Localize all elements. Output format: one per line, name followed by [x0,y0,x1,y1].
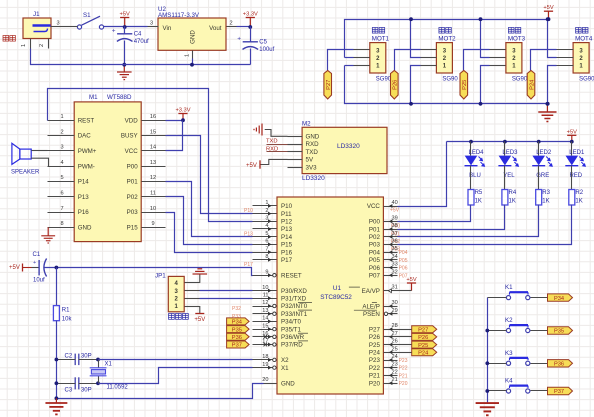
pin 12 of U1 P32/INT0 [253,300,313,310]
wire M1 P01 to U1 P14 [166,182,253,237]
node ground rail bottom junction [55,396,59,400]
svg-text:MOT1: MOT1 [372,36,390,43]
wire crystal to U1 X2 [99,359,253,361]
wire MOT2 pin1 to ground bus [411,66,421,104]
pin 35 of U1 P04 [369,246,398,256]
node MOT3 ground junction [479,102,483,106]
port P25 flag [412,341,437,349]
svg-text:TXD: TXD [306,149,319,156]
wire R1 to ground rail [56,321,58,399]
svg-text:P30/RXD: P30/RXD [281,288,307,295]
svg-text:P34/T0: P34/T0 [281,319,302,326]
svg-text:P01: P01 [127,179,139,186]
port P24 flag [412,349,437,357]
pin 11 of M1 [142,191,166,197]
svg-text:M1: M1 [89,94,98,101]
svg-text:R1: R1 [62,308,70,314]
svg-text:3: 3 [265,216,268,222]
svg-text:+: + [33,260,36,266]
wire M1 VDD to +3.3V [166,120,183,122]
wire JP1 pin1 to +5V [199,306,201,314]
wire P26 pin to flag [398,336,412,338]
node LED bus junction LED4 [469,140,473,144]
servo connector MOT4 [573,28,594,83]
pin 33 of U1 P06 [369,262,398,272]
svg-text:J1: J1 [33,11,40,18]
pin 14 of U1 P34/T0 [253,316,302,326]
svg-text:11: 11 [263,293,269,299]
svg-text:1K: 1K [509,199,516,205]
svg-text:P10: P10 [281,203,293,210]
wire K2 left [488,330,507,332]
svg-text:REST: REST [78,117,95,124]
pin 11 of U1 P31/TXD [253,293,307,303]
servo connector MOT3 [506,28,528,83]
pin 1 of J1 [21,39,31,49]
svg-text:P24: P24 [418,351,428,357]
pin 39 of U1 P00 [369,215,398,225]
svg-text:P13: P13 [281,226,293,233]
LED LED4 [465,142,485,180]
svg-text:LED2: LED2 [536,150,552,156]
label TXD [266,139,278,145]
svg-text:P05: P05 [399,258,408,264]
label P13 [244,231,253,237]
svg-text:LD3320: LD3320 [302,175,325,182]
crystal X1 11.0592 [90,358,129,391]
svg-text:P13: P13 [78,194,90,201]
svg-text:5V: 5V [306,157,314,164]
pin 1 of MOT4 [557,65,574,67]
ground at C4 [117,65,132,80]
svg-text:P36: P36 [232,335,242,341]
port P37 flag at U1 [227,341,250,349]
svg-text:P05: P05 [369,257,381,264]
svg-text:+: + [237,36,241,43]
svg-text:ALE/P: ALE/P [362,303,380,310]
svg-text:P33/INT1: P33/INT1 [281,311,308,318]
wire ground rail bottom [57,384,264,399]
svg-text:P37: P37 [554,389,564,395]
svg-text:36: 36 [392,239,398,245]
pin 2 of MOT3 [490,57,506,59]
svg-text:STC89C52: STC89C52 [320,294,352,301]
pin 15 of M1 [142,129,166,135]
svg-text:SG90: SG90 [512,77,528,83]
svg-text:RXD: RXD [306,141,320,148]
pin 1 of U2 [185,51,193,59]
svg-text:+5V: +5V [246,163,257,169]
svg-text:P22: P22 [399,366,408,372]
svg-text:P11: P11 [281,211,292,218]
pin 27 of U1 P26 [369,331,398,341]
power +5V at JP1 [194,314,205,324]
svg-text:+5V: +5V [9,265,20,271]
svg-text:2: 2 [39,44,45,47]
svg-text:P24: P24 [529,80,535,90]
ground servo bus [538,104,556,122]
pin 3 of J1 [51,21,63,27]
wire R3 to U1 P02 [398,205,539,237]
wire MOT3 pin2 to +5V bus [481,20,490,58]
connector J1 [23,11,51,39]
label P33 net [232,314,241,320]
pin 6 of M1 [48,191,75,197]
svg-text:4: 4 [60,160,63,166]
label P01 net [391,231,400,237]
svg-text:P26: P26 [393,80,399,90]
pin 1 of MOT1 [354,65,370,67]
svg-text:P00: P00 [127,163,139,170]
svg-text:+3.3V: +3.3V [243,11,258,17]
svg-text:C1: C1 [33,252,41,258]
servo connector MOT1 [370,28,392,83]
port P36 at K3 [548,360,573,368]
svg-text:P35: P35 [232,327,242,333]
pin 26 of U1 P25 [369,339,398,349]
svg-text:P27: P27 [418,327,428,333]
pin 4 of JP1 [185,282,200,284]
node C3 left junction [55,381,59,385]
node +5V input junction [123,25,127,29]
node LED bus junction LED1 [570,140,574,144]
svg-text:21: 21 [392,377,398,383]
label RXD [266,146,278,152]
pin 3 of MOT1 [354,49,370,51]
svg-text:10uf: 10uf [33,278,45,284]
wire net RXD on M2 TXD [267,151,288,153]
svg-text:P00: P00 [369,219,381,226]
svg-text:5: 5 [60,175,63,181]
wire crystal to U1 X1 [99,368,253,384]
pin 8 of U1 P17 [253,254,293,264]
wire MOT1 pin1 stub [345,65,354,67]
pin 2 of JP1 [185,298,200,300]
svg-text:+5V: +5V [543,5,553,11]
wire M2 GND to ground [265,130,288,137]
svg-text:7: 7 [60,206,63,212]
svg-text:11.0592: 11.0592 [107,385,129,391]
svg-text:MOT3: MOT3 [508,36,526,43]
pin 16 of M1 [142,114,166,121]
svg-text:R2: R2 [575,190,583,196]
wire R5 to U1 P00 [398,205,471,222]
svg-text:1: 1 [21,44,27,47]
port P34 flag at U1 [227,318,250,326]
svg-text:RESET: RESET [281,272,302,279]
svg-text:TXD: TXD [266,139,278,145]
wire K1 to flag [531,297,548,299]
wire speaker to M1 PWM+ [32,150,48,152]
label 电源 [3,36,15,42]
pin 7 of M1 [48,206,75,213]
wire JP1 pin2 to U1 P31 [200,298,253,300]
pin 10 of U1 P30/RXD [253,285,308,295]
port P26 [391,71,399,100]
pin 3 of JP1 [185,290,200,292]
svg-text:LED4: LED4 [468,150,484,156]
svg-text:+5V: +5V [120,11,130,17]
wire MOT4 pin2 to +5V bus [548,20,557,58]
svg-text:5: 5 [265,231,268,237]
svg-text:1: 1 [60,114,63,120]
svg-text:MOT2: MOT2 [438,36,456,43]
wire K4 left [488,390,507,392]
svg-text:8: 8 [60,221,63,227]
svg-text:P32/INT0: P32/INT0 [281,303,308,310]
svg-text:1K: 1K [542,199,549,205]
svg-text:K2: K2 [505,317,513,324]
pin 3 of MOT2 [421,49,437,51]
wire MOT3 pin1 to ground bus [481,66,490,104]
pin 40 of U1 VCC [367,200,398,210]
label P32 net [232,306,241,312]
svg-text:P04: P04 [369,249,381,256]
svg-text:BUSY: BUSY [121,133,138,140]
node C2 left junction [55,358,59,362]
wire P25 pin to flag [398,344,412,346]
pin 23 of U1 P22 [369,362,398,372]
svg-text:12: 12 [262,300,268,306]
svg-text:P23: P23 [399,358,408,364]
svg-text:P27: P27 [326,80,332,90]
svg-text:GND: GND [306,134,320,141]
svg-text:+5V: +5V [406,277,416,283]
wire MOT4 pin1 to ground bus [548,66,557,104]
wire buttons common vertical [487,298,489,404]
svg-text:+: + [112,28,116,35]
svg-text:30P: 30P [81,354,92,360]
svg-text:P06: P06 [399,266,408,272]
svg-text:12: 12 [150,175,156,181]
svg-text:P02: P02 [127,194,139,201]
svg-text:+5V: +5V [567,129,577,135]
svg-text:P26: P26 [369,334,381,341]
wire JP1 pin3 to U1 P30 [200,290,253,292]
svg-text:9: 9 [151,221,154,227]
svg-text:100uf: 100uf [259,47,274,53]
svg-text:P16: P16 [281,249,293,256]
svg-text:P25: P25 [462,80,468,90]
svg-text:27: 27 [392,331,398,337]
wire M1 P02 to U1 P15 [166,197,253,245]
svg-text:AMS1117-3.3V: AMS1117-3.3V [158,12,200,19]
svg-text:31: 31 [392,285,398,291]
label VCC net [390,208,400,214]
resistor R1 10k [53,306,72,323]
svg-text:WT588D: WT588D [107,94,132,101]
label P06 [399,266,408,272]
wire K3 to flag [531,363,548,365]
node LED bus junction LED3 [503,140,507,144]
LED LED3 [498,142,518,180]
svg-text:SPEAKER: SPEAKER [11,170,40,176]
wire R2 to U1 P03 [398,205,572,245]
pin 9 of M1 [142,221,166,227]
svg-text:39: 39 [392,215,398,221]
power +3.3V at U2 output [243,11,258,27]
power +5V at input [120,11,130,27]
svg-text:32: 32 [392,269,398,275]
button K2 [505,317,530,333]
wire J1 pin3 to S1 [63,26,78,28]
pin 2 of U1 P11 [253,208,293,218]
svg-text:15: 15 [150,129,156,135]
svg-text:P04: P04 [399,250,408,256]
svg-text:30P: 30P [81,388,92,394]
node LED bus junction LED2 [537,140,541,144]
pin 3 of MOT4 [557,49,574,51]
pin 19 of U1 X1 [253,362,290,372]
svg-text:C5: C5 [259,39,267,45]
svg-text:470uf: 470uf [134,39,149,45]
pin 13 of M1 [142,160,166,167]
wire LED +5V bus [447,141,572,143]
switch S1 [77,12,103,29]
pin 13 of U1 P33/INT1 [253,308,313,318]
svg-text:S1: S1 [83,12,91,19]
svg-text:+3.3V: +3.3V [175,107,190,113]
ground at JP1 [193,269,208,274]
pin 31 of U1 EA/VP [349,285,398,295]
wire U2 pin1 to ground rail [192,59,194,65]
wire U2 pin2 to +3.3V node [237,26,251,28]
port P27 [324,71,332,100]
pin 3 of MOT3 [490,49,506,51]
button K1 [505,284,530,300]
wire M1 P03 to U1 P16 [166,213,253,253]
label P02 net [391,239,400,245]
pin 34 of U1 P05 [369,254,398,264]
svg-text:20: 20 [262,377,268,383]
node U2 pin1 junction [190,63,194,67]
label P23 [399,358,408,364]
svg-text:+5V: +5V [390,208,400,214]
port P27 flag [412,326,437,334]
pin 28 of U1 P27 [369,323,398,333]
label P07 [399,273,408,279]
speaker SPEAKER [11,143,40,175]
ground at M2 [254,124,262,136]
svg-text:16: 16 [262,331,268,337]
svg-text:7: 7 [265,246,268,252]
node MOT2 +5V junction [409,17,413,21]
svg-text:P02: P02 [369,234,381,241]
svg-text:1: 1 [185,54,191,57]
pin 8 of M1 [48,221,75,227]
svg-text:P15: P15 [127,225,139,232]
node K3 junction [485,361,489,365]
wire MOT1 pin3 to port P27 [328,50,354,74]
svg-text:17: 17 [262,339,268,345]
capacitor C3 30P [57,377,99,393]
wire MOT2 pin3 to port P26 [395,50,421,74]
svg-text:23: 23 [392,362,398,368]
svg-text:1K: 1K [575,199,582,205]
wire P27 pin to flag [398,329,412,331]
svg-text:1K: 1K [475,199,482,205]
power +5V at C1 [9,264,32,272]
wire reset pulldown vertical [56,268,58,306]
svg-text:R5: R5 [475,190,483,196]
pin 25 of U1 P24 [369,346,398,356]
svg-text:Vin: Vin [163,25,172,32]
svg-text:6: 6 [265,239,268,245]
svg-text:K1: K1 [505,284,513,291]
svg-text:LD3320: LD3320 [337,143,360,150]
pin 29 of U1 PSEN [354,308,398,318]
pin of M2 [288,159,303,161]
svg-text:P31/TXD: P31/TXD [281,296,307,303]
pin 9 of U1 RESET [253,269,302,279]
svg-text:R4: R4 [509,190,517,196]
pin 38 of U1 P01 [369,223,398,233]
svg-text:C2: C2 [65,354,73,360]
pin 1 of MOT3 [490,65,506,67]
header JP1 [155,273,188,320]
svg-text:P36/WR: P36/WR [281,334,305,341]
pin 3 of U1 P12 [253,216,293,226]
svg-text:GND: GND [78,225,92,232]
pin of M2 [288,136,303,138]
power +5V at M2 [246,160,260,169]
wire net TXD on M2 RXD [267,144,288,146]
svg-text:P06: P06 [369,265,381,272]
label P00 net [391,224,400,230]
wire MOT1 pin2 stub [345,57,354,59]
capacitor C5 100uf [237,27,274,65]
IC M2 LD3320 [302,121,387,183]
svg-text:P27: P27 [369,326,381,333]
svg-text:P24: P24 [369,350,381,357]
node MOT4 +5V junction [547,17,551,21]
svg-text:38: 38 [392,223,398,229]
port P35 flag at U1 [227,326,250,334]
pin 15 of U1 P35/T1 [253,323,302,333]
svg-text:GND: GND [190,30,197,44]
node MOT4 ground junction [546,102,550,106]
svg-text:6: 6 [60,191,63,197]
svg-text:M2: M2 [302,121,311,128]
pin 1 of M1 [48,114,75,121]
svg-text:2: 2 [230,21,233,27]
port P24 [527,71,535,100]
svg-text:P26: P26 [418,335,428,341]
label P04 [399,250,408,256]
wire U1 EA to +5V [398,290,412,292]
svg-text:22: 22 [392,369,398,375]
node MOT4 ground junction [546,102,550,106]
svg-text:8: 8 [265,254,268,260]
svg-text:C4: C4 [134,31,142,37]
svg-text:P23: P23 [369,357,381,364]
wire K4 to flag [531,390,548,392]
wire servo ground bus [345,66,548,104]
wire bottom ground rail [31,49,251,65]
svg-text:U1: U1 [333,285,342,292]
svg-text:SG90: SG90 [442,77,458,83]
label P03 net [391,247,400,253]
svg-text:P37: P37 [232,343,242,349]
node MOT3 +5V junction [479,17,483,21]
pin 3 of U2 [148,21,159,27]
svg-text:14: 14 [150,145,156,151]
pin 20 of U1 GND [262,377,295,387]
svg-text:10: 10 [150,206,156,212]
svg-text:16: 16 [150,114,156,120]
label P22 [399,366,408,372]
svg-text:P20: P20 [369,380,381,387]
